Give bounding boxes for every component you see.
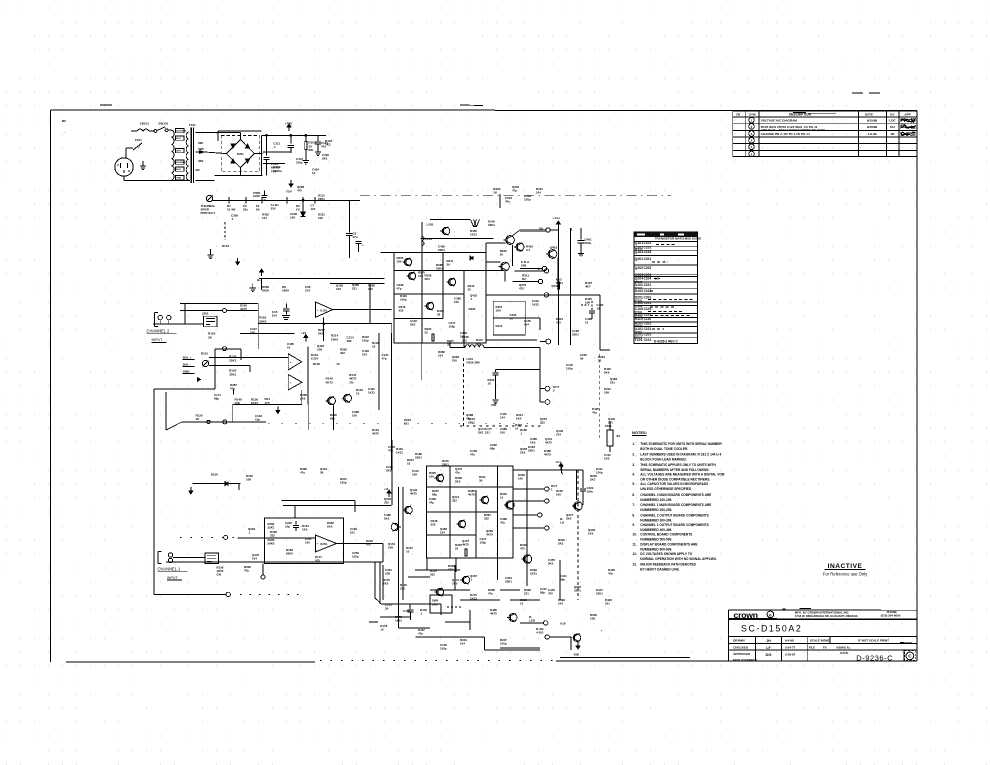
- wire segment W37: [382, 544, 384, 562]
- wire segment W33: [391, 324, 393, 333]
- svg-text:47p: 47p: [397, 287, 402, 291]
- svg-text:22K1: 22K1: [468, 421, 475, 425]
- ch1 box transistor Q305: [481, 496, 488, 503]
- ch1 cap C403: [582, 470, 584, 488]
- svg-text:Q101: Q101: [635, 241, 644, 245]
- svg-text:221: 221: [350, 531, 355, 535]
- ch1 box internal verticals: [449, 466, 451, 558]
- svg-text:C101: C101: [644, 283, 652, 287]
- svg-text:10 4W: 10 4W: [227, 208, 236, 212]
- wire segment W34: [485, 243, 487, 262]
- svg-text:.1: .1: [470, 578, 473, 582]
- svg-text:DISPLAY BOARD COMPONENTS AR: DISPLAY BOARD COMPONENTS ARE: [640, 542, 697, 546]
- svg-text:DPDT: DPDT: [432, 604, 439, 607]
- svg-text:PROTECT: PROTECT: [201, 211, 216, 215]
- wire segment W17: [426, 558, 428, 570]
- svg-text:47u: 47u: [321, 145, 326, 149]
- wire segment W11: [463, 343, 465, 348]
- ch1 rail transistor Q: [405, 506, 413, 514]
- rail wire B: [240, 333, 295, 335]
- svg-text:47u: 47u: [230, 387, 235, 391]
- transformer T101 core: [190, 128, 192, 184]
- wire segment W15: [571, 228, 573, 231]
- svg-text:VOLTAGE A/C DIAGRAM: VOLTAGE A/C DIAGRAM: [761, 119, 798, 123]
- svg-text:C101: C101: [644, 241, 652, 245]
- svg-text:.1: .1: [231, 217, 234, 221]
- wire segment W3: [369, 284, 371, 310]
- zobel cap C220: [495, 370, 497, 372]
- svg-text:CONTROL BOARD COMPONENTS: CONTROL BOARD COMPONENTS: [640, 533, 692, 537]
- ch1 box internal horizontals: [427, 486, 513, 488]
- transformer lead color tags: [176, 129, 185, 133]
- svg-text:475: 475: [366, 543, 371, 547]
- svg-text:2K00: 2K00: [262, 289, 269, 293]
- svg-text:GN: GN: [217, 573, 221, 577]
- wire y=271: [515, 270, 544, 272]
- svg-text:LDC: LDC: [889, 119, 896, 123]
- svg-text:CHANNEL 1 OUTPUT BOARD COM: CHANNEL 1 OUTPUT BOARD COMPONENTS: [640, 523, 708, 527]
- svg-text:221: 221: [608, 421, 613, 425]
- svg-text:332: 332: [340, 351, 345, 355]
- svg-text:D206: D206: [469, 307, 476, 311]
- tick on D105 row: [238, 484, 240, 490]
- svg-text:APP: APP: [904, 112, 910, 116]
- svg-text:1K0: 1K0: [327, 525, 333, 529]
- svg-text:47p: 47p: [382, 357, 387, 361]
- small dashes above title block: [783, 608, 786, 610]
- svg-text:CHANGE PR 2, R4 TO 1.7K PG 1: CHANGE PR 2, R4 TO 1.7K PG 14: [761, 132, 810, 136]
- svg-text:C103: C103: [644, 307, 652, 311]
- svg-text:C101: C101: [644, 313, 652, 317]
- ch1 driver rail B: [402, 487, 404, 560]
- wire segment W19: [496, 558, 498, 580]
- svg-text:10: 10: [372, 345, 376, 349]
- resistor R103: [305, 135, 307, 141]
- svg-text:BAL -: BAL -: [183, 362, 191, 366]
- transistor Q118: [344, 394, 352, 402]
- main +V rail from bridge: [262, 134, 327, 136]
- op-amp rail vertical: [307, 346, 309, 404]
- svg-text:.1: .1: [470, 297, 473, 301]
- svg-text:4-OO: 4-OO: [536, 631, 544, 635]
- double arrow antenna symbol: [471, 220, 477, 227]
- svg-text:22K1: 22K1: [229, 358, 237, 362]
- svg-text:Q201: Q201: [635, 257, 644, 261]
- driver transistor Q207: [506, 236, 515, 245]
- svg-text:NUMBERED 200-299.: NUMBERED 200-299.: [640, 508, 672, 512]
- bottom return wire: [233, 404, 302, 406]
- svg-text:DRAWN: DRAWN: [733, 639, 745, 643]
- svg-text:.1: .1: [248, 531, 251, 535]
- svg-text:CHANNEL 1: CHANNEL 1: [158, 566, 182, 571]
- svg-text:5T101: 5T101: [635, 310, 643, 314]
- svg-text:C6: C6: [296, 208, 300, 212]
- wire segment W35: [599, 295, 601, 350]
- svg-text:5T201: 5T201: [635, 330, 643, 334]
- svg-text:D214: D214: [496, 324, 503, 328]
- svg-text:10: 10: [488, 382, 492, 386]
- wire segment X7: [430, 589, 470, 591]
- svg-text:3.: 3.: [632, 463, 635, 467]
- svg-text:150p: 150p: [500, 642, 507, 646]
- svg-text:13.: 13.: [632, 562, 637, 566]
- wire segment X19: [525, 317, 540, 319]
- svg-text:-15: -15: [336, 362, 341, 366]
- svg-text:D105: D105: [211, 473, 219, 477]
- driver transistor Q208: [501, 262, 510, 271]
- svg-text:ALL CAPACITOR VALUES IN MI: ALL CAPACITOR VALUES IN MICROFARADS: [640, 482, 708, 486]
- svg-text:4K75: 4K75: [486, 533, 493, 537]
- ch1 supply arrow: [388, 493, 390, 497]
- svg-text:NOTES:: NOTES:: [632, 430, 647, 435]
- svg-text:UNLESS OTHERWISE SPECIFIED.: UNLESS OTHERWISE SPECIFIED.: [640, 487, 692, 491]
- svg-text:47p: 47p: [244, 569, 249, 573]
- wire segment W6: [391, 470, 393, 505]
- svg-text:ZN: ZN: [736, 112, 740, 116]
- svg-text:22: 22: [425, 331, 429, 335]
- svg-text:C102: C102: [644, 246, 652, 250]
- svg-text:332: 332: [431, 523, 436, 527]
- spare parts list table: [634, 232, 697, 343]
- fuse F101: [126, 147, 133, 149]
- svg-text:150p: 150p: [340, 481, 347, 485]
- secondary taps: [196, 132, 200, 134]
- svg-text:10K: 10K: [590, 617, 596, 621]
- svg-text:5T119: 5T119: [635, 315, 643, 319]
- svg-text:150p: 150p: [296, 161, 303, 165]
- svg-text:10: 10: [598, 359, 602, 363]
- svg-text:221: 221: [610, 381, 615, 385]
- svg-text:.1: .1: [420, 612, 423, 616]
- svg-text:47p: 47p: [476, 342, 481, 346]
- svg-text:1K21: 1K21: [470, 233, 477, 237]
- box top feed: [294, 505, 296, 518]
- svg-text:100: 100: [429, 475, 434, 479]
- svg-text:150p: 150p: [362, 339, 369, 343]
- svg-text:100: 100: [352, 414, 357, 418]
- svg-text:CHANNEL 2 OUTPUT BOARD COM: CHANNEL 2 OUTPUT BOARD COMPONENTS: [640, 513, 708, 517]
- wire segment W9: [486, 270, 504, 272]
- svg-text:47p: 47p: [512, 189, 517, 193]
- svg-text:1K0: 1K0: [383, 582, 389, 586]
- svg-text:1K0: 1K0: [604, 457, 610, 461]
- wire segment X4: [408, 576, 430, 578]
- svg-text:10K: 10K: [418, 274, 424, 278]
- wire segment W22: [440, 604, 442, 615]
- svg-text:10: 10: [287, 346, 291, 350]
- wire segment X15: [430, 219, 470, 221]
- feedback tap dots: [240, 593, 305, 595]
- ch1 low transistor Q316: [436, 588, 443, 595]
- svg-text:150p: 150p: [449, 325, 456, 329]
- transformer T101 primary winding: [171, 130, 174, 180]
- left feedback wire vertical: [153, 389, 155, 594]
- svg-text:BLOCK PUSH LEAD MARKED.: BLOCK PUSH LEAD MARKED.: [640, 458, 687, 462]
- wire segment W5: [333, 420, 335, 430]
- svg-text:332: 332: [540, 421, 545, 425]
- svg-text:6W: 6W: [308, 148, 313, 152]
- svg-text:2K2: 2K2: [478, 431, 484, 435]
- svg-text:1.: 1.: [632, 442, 635, 446]
- ground arrow below: [190, 487, 192, 491]
- svg-text:SERIAL NUMBERS AFTER AND F: SERIAL NUMBERS AFTER AND FOLLOWING:: [640, 468, 709, 472]
- wire segment W31: [240, 349, 242, 360]
- svg-text:D.P.N.: D.P.N.: [840, 651, 849, 655]
- svg-text:10: 10: [585, 321, 589, 325]
- wire segment W25: [399, 627, 430, 629]
- output transistor Q409: [559, 469, 561, 471]
- svg-text:221: 221: [485, 431, 490, 435]
- channel 1 input jacks: [157, 552, 159, 564]
- svg-text:104: 104: [438, 354, 443, 358]
- C2 tick mark: [233, 389, 235, 394]
- svg-text:10K: 10K: [585, 301, 591, 305]
- svg-text:C101: C101: [644, 327, 652, 331]
- svg-text:4K75: 4K75: [462, 543, 469, 547]
- ground symbol mid: [252, 284, 254, 289]
- title block outline: [729, 609, 917, 612]
- svg-text:47u: 47u: [300, 471, 305, 475]
- svg-text:5T103: 5T103: [635, 304, 643, 308]
- svg-text:A10: A10: [560, 622, 566, 626]
- svg-text:D101: D101: [222, 244, 230, 248]
- svg-text:11.: 11.: [632, 542, 636, 546]
- svg-text:68p: 68p: [330, 417, 335, 421]
- svg-text:C202: C202: [644, 266, 652, 270]
- svg-text:U201: U201: [320, 542, 328, 546]
- svg-text:104: 104: [252, 557, 257, 561]
- svg-text:7.: 7.: [632, 503, 635, 507]
- svg-text:+75V: +75V: [285, 121, 293, 125]
- svg-text:39: 39: [437, 313, 441, 317]
- svg-text:10: 10: [356, 392, 360, 396]
- svg-text:C07: C07: [305, 289, 311, 293]
- svg-text:F401: F401: [605, 424, 612, 428]
- svg-text:2.: 2.: [632, 453, 635, 457]
- svg-text:1K0: 1K0: [496, 309, 502, 313]
- svg-text:2K2: 2K2: [590, 478, 596, 482]
- feedback wire: [182, 421, 266, 423]
- svg-text:+: +: [317, 542, 319, 546]
- transformer T101 secondary winding: [186, 132, 188, 180]
- driver rails: [378, 333, 380, 410]
- cap C164: [409, 604, 411, 609]
- svg-text:4K75: 4K75: [468, 493, 475, 497]
- svg-text:68p: 68p: [540, 591, 545, 595]
- cap C104: [317, 135, 319, 141]
- long dashed channel divider: [577, 470, 579, 600]
- svg-text:47p: 47p: [592, 411, 597, 415]
- channel 2 output board enclosure: [394, 252, 486, 343]
- svg-text:1K21: 1K21: [530, 572, 537, 576]
- svg-text:100: 100: [454, 300, 459, 304]
- svg-text:221: 221: [462, 339, 467, 343]
- lower dashed cluster: [591, 301, 593, 310]
- svg-text:2K2: 2K2: [548, 562, 554, 566]
- wire segment X2: [415, 569, 460, 571]
- filter cap C203: [580, 228, 582, 240]
- ground arrow bottom: [577, 642, 579, 646]
- svg-text:10K: 10K: [604, 391, 610, 395]
- svg-text:47p: 47p: [608, 572, 613, 576]
- ch1 driver rail A: [398, 487, 400, 628]
- svg-text:39: 39: [447, 263, 451, 267]
- svg-text:NORMAL OPERATION WITH NO S: NORMAL OPERATION WITH NO SIGNAL APPLIED.: [640, 557, 717, 561]
- svg-text:INPUT: INPUT: [167, 576, 179, 580]
- svg-text:20K0: 20K0: [268, 542, 275, 546]
- svg-text:104: 104: [500, 416, 505, 420]
- svg-text:104: 104: [556, 433, 561, 437]
- svg-text:221: 221: [352, 287, 357, 291]
- wire segment X18: [421, 360, 423, 380]
- svg-text:T101: T101: [189, 123, 196, 127]
- ch1 driver transistor Q307: [506, 501, 514, 509]
- svg-text:4K7: 4K7: [585, 285, 591, 289]
- svg-text:22: 22: [455, 547, 459, 551]
- node vertical x258: [257, 303, 259, 349]
- svg-text:C201: C201: [644, 322, 652, 326]
- dashed stub: [224, 222, 226, 240]
- ch2 upper transistor Q202: [408, 272, 415, 279]
- decoupling cap near U101: [285, 303, 287, 308]
- svg-text:104: 104: [524, 323, 529, 327]
- svg-text:180: 180: [346, 339, 351, 343]
- svg-text:150p: 150p: [480, 541, 487, 545]
- revision row 3: [749, 131, 755, 137]
- wire segment W18: [455, 558, 457, 572]
- output jack CH2 minus: [545, 400, 550, 405]
- wire segment W28: [166, 422, 182, 430]
- wire TP2: [520, 268, 542, 270]
- svg-text:1%: 1%: [349, 380, 354, 384]
- parts table row dashes: [656, 244, 676, 246]
- bridge bottom wire: [215, 174, 263, 176]
- plug bottom wire: [123, 176, 125, 180]
- svg-text:332: 332: [484, 517, 489, 521]
- svg-text:10: 10: [515, 427, 519, 431]
- output transistor Q209: [548, 250, 557, 259]
- input wire upper: [180, 302, 258, 304]
- svg-text:12.: 12.: [632, 552, 637, 556]
- wire D105 row: [192, 483, 240, 485]
- svg-text:CB101: CB101: [140, 122, 150, 126]
- svg-text:3300u: 3300u: [273, 169, 282, 173]
- svg-text:SW4: SW4: [432, 599, 439, 603]
- svg-text:MOD ASSEMBLY: MOD ASSEMBLY: [733, 658, 757, 662]
- svg-text:10: 10: [520, 602, 524, 606]
- box transistor Q206: [426, 302, 433, 309]
- wire net A: [259, 277, 385, 279]
- svg-text:NUMBERED 600-699.: NUMBERED 600-699.: [640, 547, 672, 551]
- svg-text:-75V: -75V: [285, 189, 292, 193]
- svg-text:47p: 47p: [388, 449, 393, 453]
- title block row dividers: [754, 636, 756, 661]
- svg-text:+: +: [601, 629, 603, 633]
- svg-text:SW101: SW101: [158, 122, 168, 126]
- svg-text:IF NOT SCALE PRINT: IF NOT SCALE PRINT: [858, 638, 889, 642]
- channel 1 output board enclosure: [427, 466, 513, 558]
- svg-text:OR OTHER DIODE COMPATIBLE: OR OTHER DIODE COMPATIBLE RECTIFIERS.: [640, 477, 710, 481]
- svg-text:Q403: Q403: [550, 246, 558, 250]
- bridge rectifier D201 outer box: [218, 130, 261, 132]
- svg-text:22u: 22u: [243, 208, 248, 212]
- wire plug to fuse: [125, 148, 127, 158]
- svg-text:10: 10: [510, 317, 514, 321]
- svg-text:475: 475: [297, 189, 302, 193]
- svg-text:2K0: 2K0: [455, 480, 461, 484]
- svg-text:22K1: 22K1: [442, 463, 449, 467]
- svg-text:475: 475: [519, 287, 524, 291]
- svg-text:THIS SCHEMATIC FOR UNITS W: THIS SCHEMATIC FOR UNITS WITH SERIAL NUM…: [640, 442, 722, 446]
- ch1 box transistor Q306: [458, 520, 465, 527]
- speaker protect line: [213, 199, 360, 201]
- svg-text:C103: C103: [644, 250, 652, 254]
- svg-text:10K: 10K: [412, 473, 418, 477]
- left feedback wire horizontal: [154, 593, 226, 595]
- svg-text:5T102: 5T102: [635, 286, 643, 290]
- thermal breaker S101: [206, 195, 212, 201]
- svg-text:CHANNEL 1 MAIN BOARD COMPO: CHANNEL 1 MAIN BOARD COMPONENTS ARE: [640, 503, 711, 507]
- wire segment X3: [382, 565, 384, 600]
- svg-text:10.: 10.: [632, 533, 637, 537]
- wire segment W2: [261, 279, 263, 290]
- transistor Q117: [328, 397, 336, 405]
- svg-text:R411: R411: [556, 281, 563, 285]
- svg-text:100: 100: [500, 431, 505, 435]
- ch1 driver transistor Q311b: [462, 576, 470, 584]
- svg-text:68p: 68p: [432, 493, 437, 497]
- svg-text:A/DWG AL: A/DWG AL: [836, 645, 851, 649]
- svg-text:LM: LM: [655, 276, 660, 280]
- svg-text:INPUT: INPUT: [152, 338, 164, 342]
- svg-text:LO: LO: [560, 521, 565, 525]
- ch1 jack wires: [513, 488, 545, 490]
- svg-text:Q204: Q204: [635, 277, 644, 281]
- svg-text:5T101: 5T101: [635, 299, 643, 303]
- svg-text:16K9: 16K9: [282, 289, 289, 293]
- svg-text:GND: GND: [491, 404, 497, 407]
- bottom stage box: [430, 595, 452, 613]
- svg-text:10K: 10K: [235, 401, 241, 405]
- wire segment W38: [354, 501, 356, 513]
- svg-text:R2: R2: [522, 277, 526, 281]
- bridge input wire from transformer: [199, 132, 240, 134]
- copyright circle C: [905, 651, 916, 661]
- svg-text:2K2: 2K2: [322, 157, 328, 161]
- feedback node circles: [223, 420, 227, 424]
- svg-text:22K1: 22K1: [488, 223, 495, 227]
- wire segment W26: [375, 598, 381, 604]
- svg-text:68p: 68p: [560, 578, 565, 582]
- svg-text:100: 100: [305, 541, 310, 545]
- parts table header bar: [634, 232, 697, 237]
- wire segment W27: [165, 392, 167, 430]
- svg-text:22K1: 22K1: [596, 592, 603, 596]
- channel 1 supply wire upper: [281, 500, 355, 502]
- wire segment W36: [600, 349, 610, 351]
- pot wiper arrow: [197, 378, 200, 382]
- inductor L201: [465, 345, 484, 348]
- svg-text:MAJOR FEEDBACK PATH DENOTED: MAJOR FEEDBACK PATH DENOTED: [640, 562, 696, 566]
- return arrow: [277, 407, 279, 411]
- bridge rectifier diamond: [226, 140, 254, 168]
- svg-text:V8: V8: [539, 227, 543, 231]
- svg-text:104: 104: [272, 314, 277, 318]
- svg-text:104: 104: [362, 353, 367, 357]
- svg-text:C201: C201: [644, 295, 652, 299]
- svg-text:22K1: 22K1: [528, 449, 535, 453]
- AC plug P101: [115, 158, 133, 176]
